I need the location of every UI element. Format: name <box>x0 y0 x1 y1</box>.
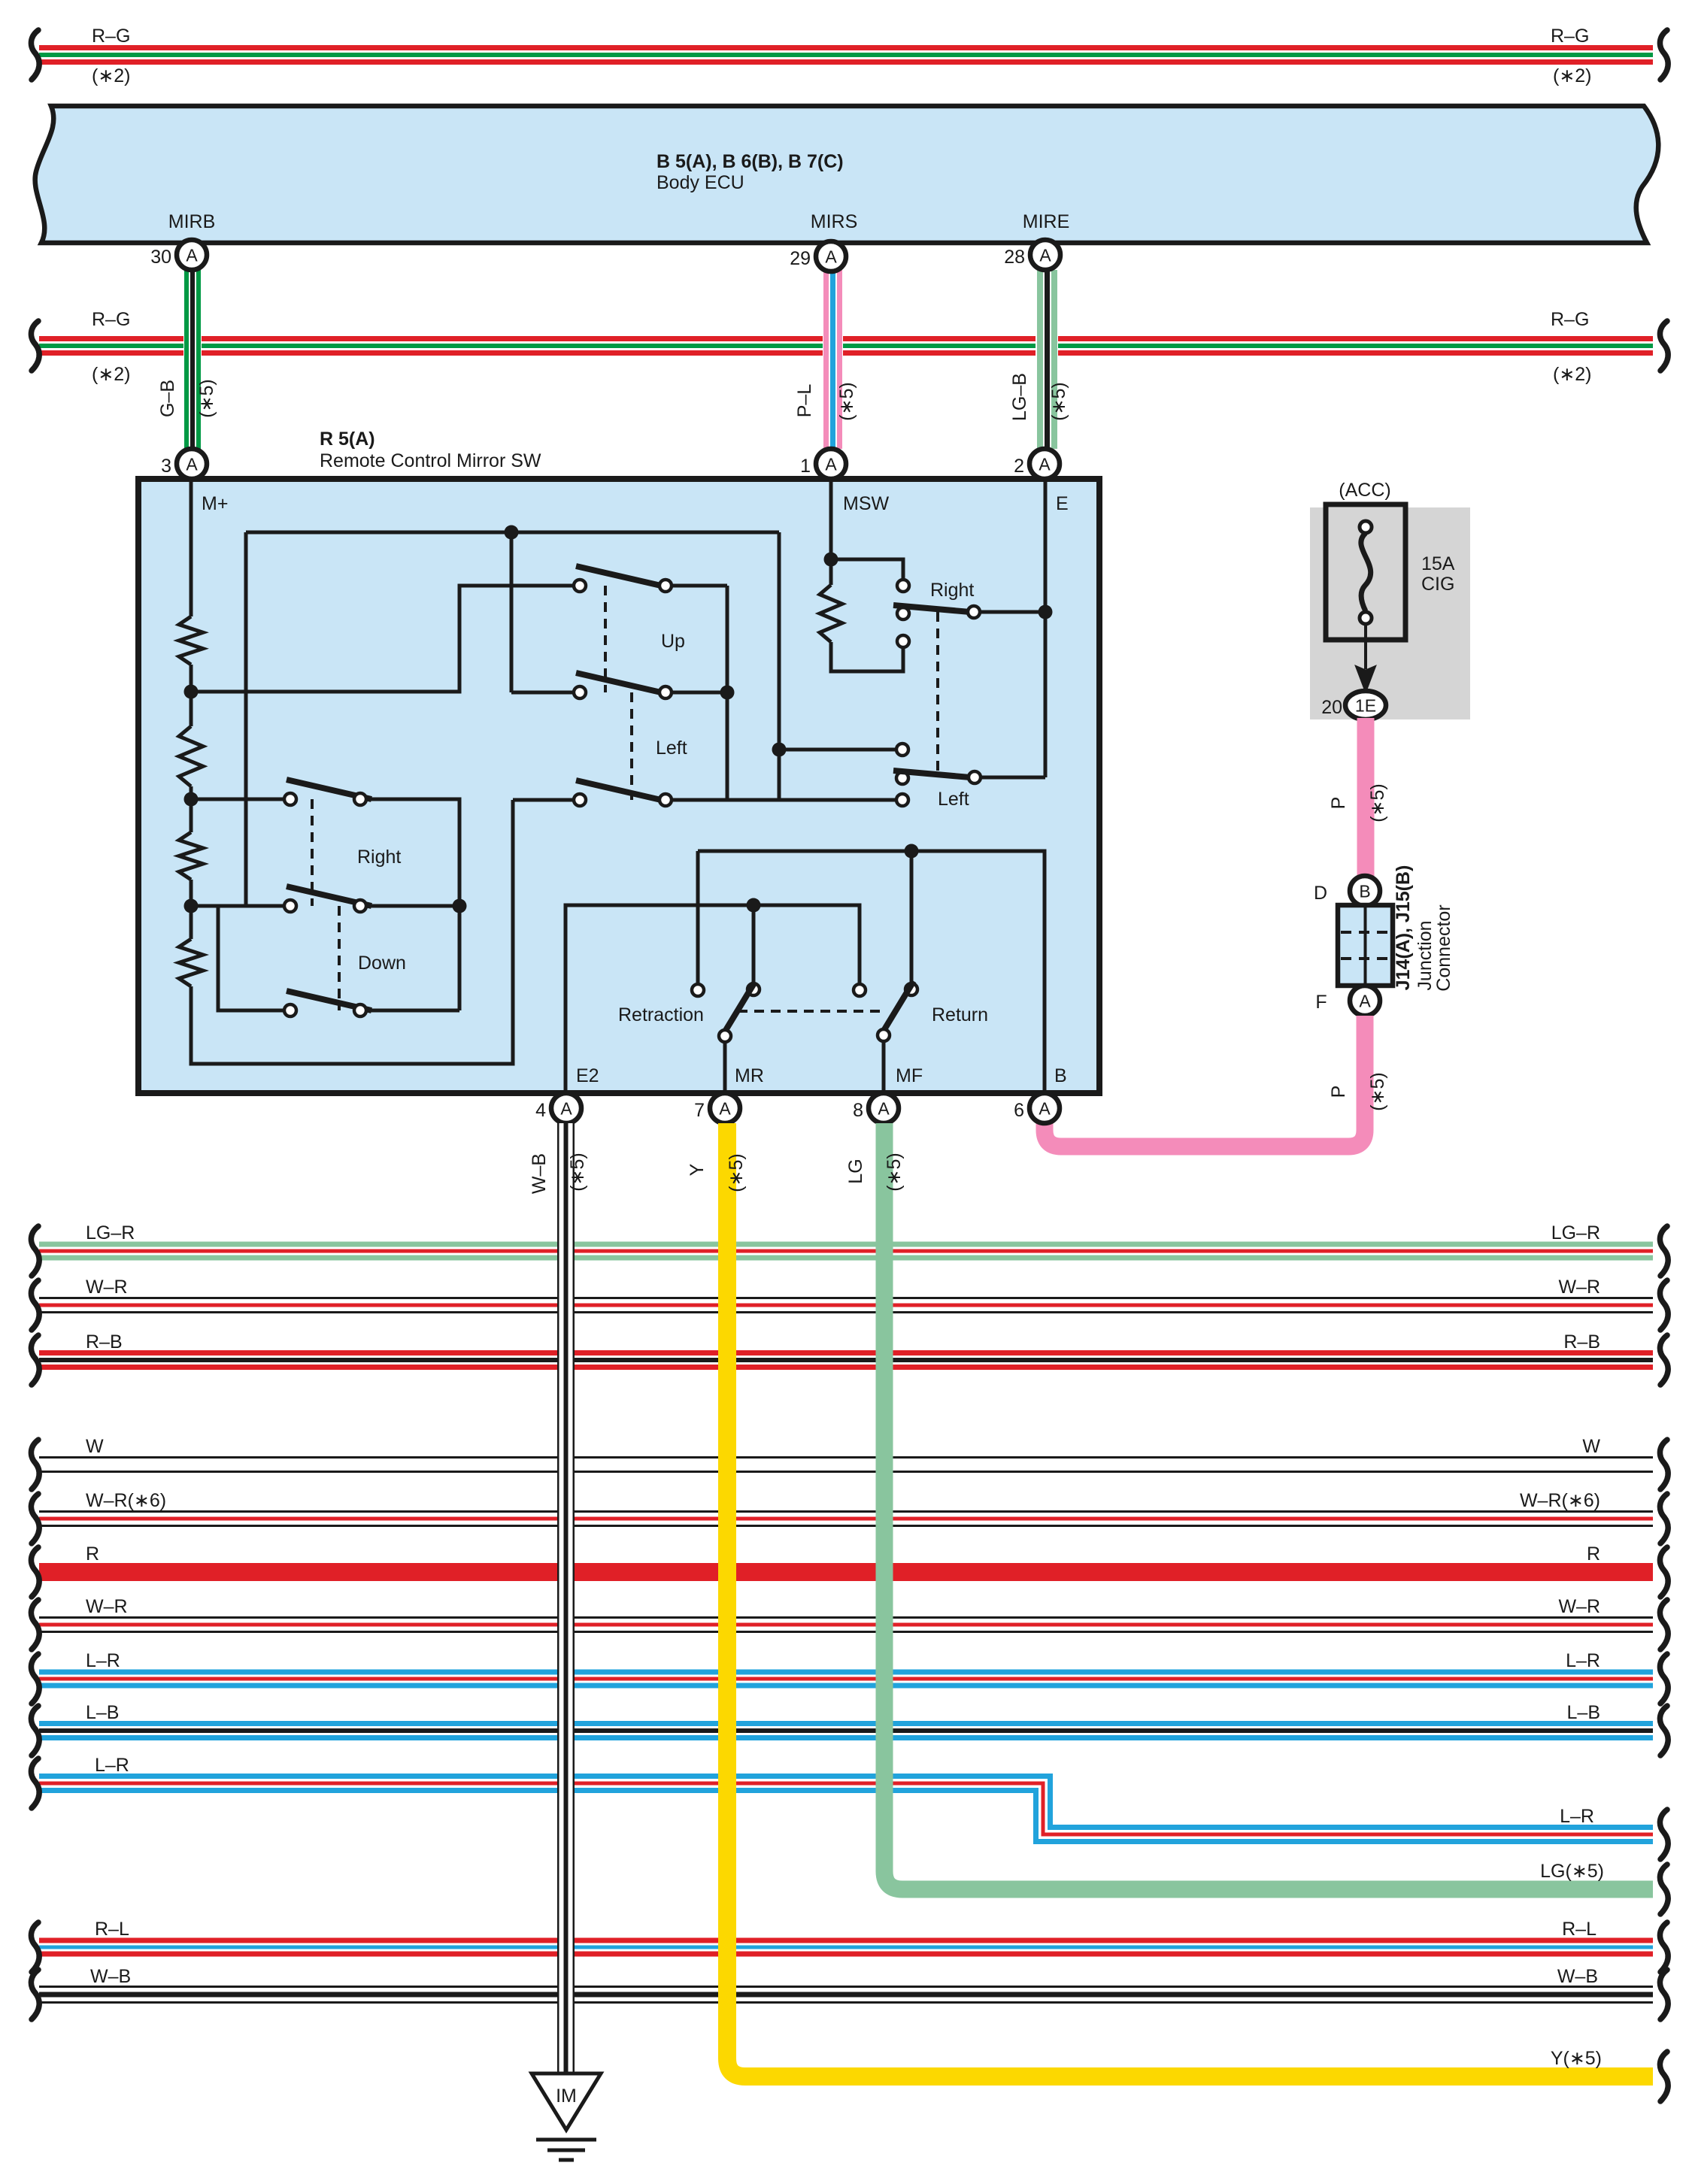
svg-text:L–B: L–B <box>86 1702 119 1723</box>
switch Return arm <box>884 981 914 1031</box>
cut mark right of LG-R <box>1660 1226 1668 1276</box>
cut mark right of W-B <box>1660 1970 1668 2019</box>
switch MSW Right arm <box>893 605 970 612</box>
relay block gray box <box>1310 507 1470 719</box>
svg-text:R–L: R–L <box>95 1919 129 1940</box>
wire W-R horizontal <box>39 1616 1653 1633</box>
svg-text:L–R: L–R <box>95 1755 129 1776</box>
cut mark left of R <box>31 1547 39 1597</box>
wire from x1036 node to right-trio top contact <box>779 748 896 752</box>
switch right-trio middle contact (floating) <box>896 772 908 784</box>
switch MSW Right middle contact (floating) <box>897 607 909 619</box>
cut mark right of W-R(*6) <box>1660 1494 1668 1543</box>
wire L-R horizontal <box>39 1670 1653 1689</box>
wire R horizontal <box>39 1563 1653 1581</box>
cut mark left of W-R <box>31 1600 39 1649</box>
switch Down moving contact <box>354 1004 366 1016</box>
wire E branch to Left arm contact <box>981 776 1045 780</box>
switch Down arm <box>287 991 371 1010</box>
wire LG-R horizontal <box>39 1242 1653 1261</box>
svg-text:A: A <box>1039 1099 1051 1119</box>
svg-text:J14(A), J15(B): J14(A), J15(B) <box>1393 865 1414 991</box>
svg-text:P: P <box>1328 797 1349 810</box>
svg-text:R: R <box>86 1543 99 1565</box>
svg-text:Y: Y <box>687 1163 708 1176</box>
svg-text:6: 6 <box>1014 1100 1024 1121</box>
wire between R2 and node D <box>190 786 193 832</box>
junction dot y1204 <box>747 898 761 913</box>
svg-text:L–R: L–R <box>1560 1806 1594 1827</box>
junction connector box J14(A) J15(B) <box>1338 905 1393 986</box>
cut mark right of W-R <box>1660 1600 1668 1649</box>
dashed link Left-bottom arms <box>630 692 633 800</box>
svg-text:28: 28 <box>1004 247 1025 268</box>
svg-text:Connector: Connector <box>1433 904 1454 991</box>
cut mark left of W-B <box>31 1970 39 2019</box>
svg-text:LG–R: LG–R <box>86 1222 135 1243</box>
svg-text:R–B: R–B <box>1563 1331 1600 1353</box>
svg-text:7: 7 <box>694 1100 705 1121</box>
svg-text:R–G: R–G <box>92 309 130 330</box>
junction dot on E vertical <box>1039 605 1053 619</box>
node E junction dot <box>184 899 199 913</box>
svg-text:(∗5): (∗5) <box>1367 1072 1388 1111</box>
dashed link Right-middle arms <box>311 799 314 906</box>
svg-text:IM: IM <box>556 2086 577 2107</box>
wire bottom row to right contact at x1200 <box>672 798 896 802</box>
svg-text:A: A <box>825 247 837 267</box>
wire vertical x327 from row A to row E <box>244 532 248 906</box>
switch MSW Right lower contact <box>897 635 909 647</box>
wire MF pin vertical <box>882 1041 886 1093</box>
switch Up moving contact right <box>660 580 672 592</box>
switch Retraction fixed contact left <box>692 984 704 996</box>
svg-text:29: 29 <box>790 248 811 269</box>
wire resistor bottom loop to lower contact <box>831 642 903 671</box>
switch Return fixed contact right <box>905 983 917 995</box>
svg-text:MIRS: MIRS <box>811 211 858 232</box>
svg-text:W: W <box>1582 1436 1600 1457</box>
junction dot x967 middle row <box>720 686 735 700</box>
resistor R4 on M+ chain <box>179 939 203 986</box>
wire vertical x928 to contact <box>696 851 700 984</box>
wire W-R(*6) horizontal <box>39 1510 1653 1527</box>
wire R-L horizontal <box>39 1938 1653 1957</box>
svg-text:LG–B: LG–B <box>1009 373 1030 421</box>
svg-text:MIRB: MIRB <box>168 211 216 232</box>
switch MSW Left moving contact <box>969 771 981 783</box>
switch Left arm (middle row) <box>576 673 661 692</box>
junction connector B circle <box>1350 876 1380 906</box>
wire row C from node C to corner <box>191 586 574 692</box>
wire row y1132 Retraction-Return top <box>698 851 1045 1093</box>
cut mark right of W <box>1660 1440 1668 1489</box>
wire from MSW arm contact to E node <box>980 610 1045 614</box>
svg-text:MSW: MSW <box>843 493 890 514</box>
svg-text:Up: Up <box>661 631 685 652</box>
cut mark right of stepped L-R <box>1660 1810 1668 1859</box>
svg-text:D: D <box>1314 883 1327 904</box>
cut mark left of top R-G wire <box>31 30 39 80</box>
wire vertical x1212 to contact <box>910 851 914 983</box>
wire vertical x967 connecting Up rows <box>726 586 729 800</box>
switch middle-row fixed contact (left trio) <box>284 900 296 912</box>
switch MSW Right upper contact <box>897 580 909 592</box>
wire R-G (*2) second horizontal <box>39 336 1653 356</box>
dashed link MSW Right-Left arms <box>936 612 939 774</box>
wire MSW node to resistor <box>829 559 833 585</box>
wire vertical x1036 from row A down <box>778 532 781 800</box>
svg-text:LG(∗5): LG(∗5) <box>1540 1861 1604 1882</box>
node on row A junction dot <box>505 526 519 540</box>
resistor R3 on M+ chain <box>179 832 203 880</box>
wire P pink from junction connector A to pin 6 <box>1045 1016 1365 1147</box>
svg-text:L–R: L–R <box>86 1650 120 1671</box>
svg-text:LG: LG <box>845 1159 866 1183</box>
switch Left moving contact right (middle row) <box>660 686 672 698</box>
svg-text:A: A <box>878 1099 890 1119</box>
svg-text:20: 20 <box>1321 697 1342 718</box>
svg-text:MF: MF <box>896 1065 923 1086</box>
svg-text:R 5(A): R 5(A) <box>320 429 375 450</box>
wire Up middle row corner to contact <box>511 691 574 695</box>
cut mark left of W <box>31 1440 39 1489</box>
svg-text:R–G: R–G <box>1551 309 1589 330</box>
wire between R1 and node C <box>190 665 193 726</box>
svg-text:W–R: W–R <box>1558 1596 1600 1617</box>
svg-text:15A: 15A <box>1421 553 1455 574</box>
ground symbol IM <box>532 2073 601 2160</box>
svg-text:F: F <box>1315 992 1327 1013</box>
pin 29 connector A on Body ECU (MIRS) <box>816 241 846 271</box>
wire row y1204 from E2 <box>566 905 860 1093</box>
svg-text:W–B: W–B <box>1557 1966 1598 1987</box>
switch right-trio top contact <box>896 744 908 756</box>
cut mark right of R-B <box>1660 1335 1668 1385</box>
node C junction dot <box>184 685 199 699</box>
svg-text:MR: MR <box>735 1065 764 1086</box>
wire Right row to vertical x611 <box>366 799 459 1010</box>
svg-text:A: A <box>1039 246 1051 265</box>
cut mark left of stepped L-R <box>31 1758 39 1808</box>
switch MSW Left arm <box>893 771 970 777</box>
svg-text:(∗2): (∗2) <box>1553 364 1592 385</box>
svg-text:W–R(∗6): W–R(∗6) <box>86 1490 166 1511</box>
svg-text:A: A <box>186 246 198 265</box>
svg-text:R–B: R–B <box>86 1331 123 1353</box>
wire M+ from pin 3 down <box>190 479 193 616</box>
switch Up fixed contact left <box>574 580 586 592</box>
pin 2 connector A on mirror switch <box>1029 449 1060 479</box>
svg-text:W–R: W–R <box>86 1596 128 1617</box>
dashed link Retraction-Return arms <box>738 1010 887 1013</box>
wire G-B vertical from MIRB to pin 3 <box>183 270 202 449</box>
wire Down row to vertical x611 <box>366 1009 459 1013</box>
cut mark left of L-R <box>31 1654 39 1704</box>
svg-text:W–B: W–B <box>90 1966 131 1987</box>
pin 3 connector A on mirror switch <box>177 449 207 479</box>
svg-text:Retraction: Retraction <box>618 1004 704 1025</box>
svg-text:A: A <box>186 455 198 474</box>
wire R-B horizontal <box>39 1350 1653 1370</box>
svg-text:R: R <box>1587 1543 1600 1565</box>
wire R-G (*2) top horizontal <box>39 45 1653 65</box>
wire W-B vertical from pin 4 to ground <box>557 1123 575 2073</box>
pin 6 connector A (B) <box>1029 1093 1060 1123</box>
switch Return fixed contact left <box>854 984 866 996</box>
wire MSW node to upper contact <box>831 559 903 580</box>
svg-text:Junction: Junction <box>1415 920 1436 990</box>
wire LG-B vertical from MIRE to pin 2 <box>1036 270 1058 449</box>
pin 28 connector A on Body ECU (MIRE) <box>1030 240 1060 270</box>
svg-text:(∗5): (∗5) <box>1367 783 1388 822</box>
resistor R1 on M+ chain <box>179 616 203 665</box>
wire between R3 and node E <box>190 880 193 939</box>
svg-text:(∗5): (∗5) <box>196 379 217 418</box>
cut mark right of Y(*5) <box>1660 2052 1668 2101</box>
fuse 15A CIG box <box>1326 504 1405 640</box>
svg-text:1E: 1E <box>1355 696 1376 716</box>
svg-text:Return: Return <box>932 1004 988 1025</box>
wire row E from node E to contact <box>191 904 284 908</box>
junction dot x1036 at y997 <box>772 743 787 757</box>
svg-text:(ACC): (ACC) <box>1339 480 1390 501</box>
junction dot y1132 <box>905 844 919 859</box>
wire from fuse to 1E with arrowhead <box>1355 624 1376 693</box>
cut mark right of LG(*5) <box>1660 1864 1668 1914</box>
svg-text:W–R(∗6): W–R(∗6) <box>1520 1490 1600 1511</box>
svg-text:W–R: W–R <box>1558 1277 1600 1298</box>
Remote Control Mirror SW block R 5(A) <box>138 479 1099 1093</box>
wire MR pin vertical <box>723 1042 727 1093</box>
wire Y yellow vertical from pin 7 with elbow to Y(*5) <box>727 1123 1653 2076</box>
svg-text:Down: Down <box>358 953 406 974</box>
wire P pink from 1E to junction connector B <box>1357 718 1375 877</box>
wire E vertical from pin 2 <box>1044 479 1048 777</box>
pin 30 connector A on Body ECU (MIRB) <box>177 240 207 270</box>
wire middle row to junction x611 <box>366 904 459 908</box>
switch Up arm <box>576 566 661 586</box>
cut mark right of R <box>1660 1547 1668 1597</box>
svg-text:(∗5): (∗5) <box>567 1153 588 1192</box>
cut mark left of W-R(*6) <box>31 1494 39 1543</box>
cut mark left of R-B <box>31 1335 39 1385</box>
svg-text:Body ECU: Body ECU <box>656 172 744 193</box>
svg-text:Right: Right <box>357 847 401 868</box>
svg-text:Left: Left <box>656 738 687 759</box>
svg-text:P: P <box>1328 1086 1349 1098</box>
svg-text:A: A <box>560 1099 572 1119</box>
svg-text:LG–R: LG–R <box>1551 1222 1600 1243</box>
svg-text:(∗5): (∗5) <box>884 1153 905 1192</box>
switch MSW Right moving contact <box>968 606 980 618</box>
svg-text:A: A <box>1039 455 1051 474</box>
switch bottom-row moving contact right <box>660 794 672 806</box>
resistor on MSW branch <box>820 585 842 642</box>
cut mark left of W-R <box>31 1280 39 1330</box>
switch Retraction pivot contact <box>719 1030 731 1042</box>
svg-text:B 5(A), B 6(B), B 7(C): B 5(A), B 6(B), B 7(C) <box>656 151 844 172</box>
cut mark left of LG-R <box>31 1226 39 1276</box>
wire Up bottom row corner to contact <box>513 798 574 802</box>
switch Right fixed contact left <box>284 793 296 805</box>
wire vertical from row A node to Up middle row <box>510 532 514 692</box>
svg-text:(∗2): (∗2) <box>92 65 131 86</box>
switch right-trio bottom contact <box>896 794 908 806</box>
svg-text:Left: Left <box>938 789 969 810</box>
pin 1 connector A on mirror switch <box>816 449 846 479</box>
cut mark right of L-R <box>1660 1654 1668 1704</box>
cut mark right of W-R <box>1660 1280 1668 1330</box>
switch Retraction arm <box>725 982 755 1031</box>
svg-text:8: 8 <box>853 1100 863 1121</box>
cut mark right of L-B <box>1660 1706 1668 1755</box>
wire row A top horizontal <box>246 531 779 535</box>
wire P-L vertical from MIRS to pin 1 <box>823 270 843 449</box>
switch Return pivot contact <box>878 1029 890 1041</box>
cut mark right of R-L <box>1660 1922 1668 1972</box>
svg-text:4: 4 <box>535 1100 546 1121</box>
svg-text:P–L: P–L <box>794 384 815 418</box>
wire from middle-row right contact to node x967 <box>672 691 727 695</box>
switch Left fixed contact left (middle row) <box>574 686 586 698</box>
wire branch from row E down to Down row <box>218 906 284 1010</box>
cut mark left of L-B <box>31 1706 39 1755</box>
wire MSW vertical from pin 1 <box>829 479 833 559</box>
node D junction dot <box>184 792 199 807</box>
svg-text:(∗5): (∗5) <box>836 382 857 421</box>
switch middle-row moving contact (left trio) <box>354 900 366 912</box>
svg-text:2: 2 <box>1014 456 1024 477</box>
wire row D from node D to contact <box>191 798 284 801</box>
wire vertical x1002 to contact <box>752 905 756 983</box>
resistor R2 on M+ chain <box>179 726 203 786</box>
svg-text:A: A <box>719 1099 731 1119</box>
svg-text:R–G: R–G <box>1551 26 1589 47</box>
Body ECU block B 5(A), B 6(B), B 7(C) <box>35 106 1659 243</box>
svg-text:(∗2): (∗2) <box>92 364 131 385</box>
switch Right moving contact <box>354 793 366 805</box>
switch bottom-row fixed contact left <box>574 794 586 806</box>
svg-text:(∗5): (∗5) <box>1048 382 1069 421</box>
svg-text:W–B: W–B <box>529 1153 550 1194</box>
svg-text:R–G: R–G <box>92 26 130 47</box>
svg-text:MIRE: MIRE <box>1023 211 1070 232</box>
svg-text:Y(∗5): Y(∗5) <box>1551 2048 1602 2069</box>
wire L-B horizontal <box>39 1721 1653 1740</box>
wire LG green vertical from pin 8 with elbow to LG(*5) <box>884 1123 1653 1889</box>
fuse element symbol <box>1360 521 1372 624</box>
svg-text:Right: Right <box>930 580 974 601</box>
switch Down fixed contact left <box>284 1004 296 1016</box>
cut mark right of second R-G wire <box>1660 321 1668 371</box>
cut mark right of top R-G wire <box>1660 30 1668 80</box>
svg-text:(∗2): (∗2) <box>1553 65 1592 86</box>
svg-text:W: W <box>86 1436 104 1457</box>
svg-text:1: 1 <box>800 456 811 477</box>
junction dot MSW node <box>824 553 838 567</box>
svg-text:M+: M+ <box>202 493 228 514</box>
pin 4 connector A (E2) <box>551 1093 581 1123</box>
svg-text:L–R: L–R <box>1566 1650 1600 1671</box>
switch Retraction fixed contact right <box>747 983 760 995</box>
switch middle-row arm (left trio) <box>287 886 371 906</box>
svg-text:A: A <box>825 455 837 474</box>
svg-text:W–R: W–R <box>86 1277 128 1298</box>
svg-text:30: 30 <box>150 247 171 268</box>
svg-text:(∗5): (∗5) <box>726 1153 747 1192</box>
dashed link Up-Left arms <box>604 586 607 692</box>
pin 8 connector A (MF) <box>869 1093 899 1123</box>
svg-text:CIG: CIG <box>1421 574 1454 595</box>
svg-text:B: B <box>1054 1065 1067 1086</box>
svg-text:L–B: L–B <box>1567 1702 1600 1723</box>
wire W-R horizontal <box>39 1297 1653 1313</box>
junction dot x611 y1205 <box>453 899 467 913</box>
wire from Up right contact to vertical x967 <box>672 584 727 588</box>
cut mark left of R-L <box>31 1922 39 1972</box>
wire W-B horizontal <box>39 1986 1653 2004</box>
wire L-R stepped horizontal <box>39 1777 1653 1842</box>
pin 7 connector A (MR) <box>710 1093 740 1123</box>
dashed link middle-Down arms <box>338 906 341 1010</box>
svg-text:R–L: R–L <box>1562 1919 1596 1940</box>
svg-text:A: A <box>1359 992 1371 1011</box>
wire M+ chain bottom run to x682 <box>191 800 513 1064</box>
svg-text:E: E <box>1056 493 1069 514</box>
svg-text:Remote Control Mirror SW: Remote Control Mirror SW <box>320 450 541 471</box>
wire W horizontal <box>39 1456 1653 1473</box>
connector oval 1E <box>1345 691 1386 719</box>
svg-text:E2: E2 <box>576 1065 599 1086</box>
switch Right arm <box>287 780 371 799</box>
junction connector A circle <box>1350 986 1380 1016</box>
svg-text:G–B: G–B <box>157 380 178 417</box>
svg-text:B: B <box>1359 882 1370 901</box>
cut mark left of second R-G wire <box>31 321 39 371</box>
svg-text:3: 3 <box>161 456 171 477</box>
switch bottom-row arm <box>576 780 661 800</box>
